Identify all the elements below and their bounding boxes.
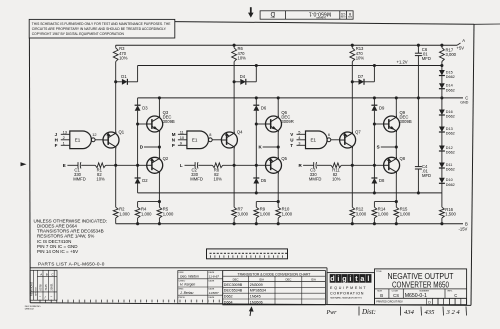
wire Q9 collector bbox=[395, 98, 397, 116]
+1.2V bus wire bbox=[138, 65, 442, 67]
svg-text:D16: D16 bbox=[446, 110, 453, 114]
NAND gate E1 (stage 1) bbox=[70, 131, 92, 149]
resistor R2 bbox=[113, 207, 118, 218]
transistor Q4 bbox=[221, 132, 237, 148]
svg-text:M650-0-1: M650-0-1 bbox=[309, 11, 331, 17]
svg-text:D2: D2 bbox=[142, 178, 148, 183]
svg-text:S: S bbox=[377, 145, 380, 150]
svg-text:TITLE: TITLE bbox=[376, 271, 382, 273]
wire Q2 emitter bbox=[158, 174, 160, 202]
svg-text:Q7: Q7 bbox=[355, 129, 361, 134]
paper edge mark top right bbox=[474, 23, 500, 25]
svg-text:THIS SCHEMATIC IS FURNISHED ON: THIS SCHEMATIC IS FURNISHED ONLY FOR TES… bbox=[32, 22, 171, 26]
svg-text:D10: D10 bbox=[446, 178, 453, 182]
diode D12 bbox=[441, 132, 443, 146]
svg-text:D14: D14 bbox=[446, 84, 453, 88]
wire Q6 emitter to Q5 collector bbox=[277, 132, 279, 157]
svg-text:+5V: +5V bbox=[457, 46, 465, 51]
svg-text:8: 8 bbox=[209, 132, 211, 137]
junction Q3 base bbox=[136, 122, 139, 125]
resistor R9 bbox=[255, 202, 257, 208]
wire Q9 base bbox=[374, 123, 384, 125]
wire Q1 emitter bbox=[115, 82, 117, 132]
svg-text:13: 13 bbox=[63, 130, 67, 135]
wire Q7 collector bbox=[351, 148, 353, 207]
wire jog R4 to Q2 emitter bbox=[138, 201, 160, 203]
diode D9 bbox=[371, 104, 377, 106]
svg-text:D662: D662 bbox=[224, 295, 233, 299]
svg-text:P: P bbox=[172, 143, 175, 148]
svg-text:g: g bbox=[342, 274, 346, 283]
digital logo bbox=[330, 274, 336, 283]
top number strip box bbox=[260, 11, 353, 19]
svg-text:MFD: MFD bbox=[422, 56, 431, 61]
wire Q6 base bbox=[256, 123, 266, 125]
junction D8 clamp bus bbox=[373, 191, 376, 194]
svg-text:MPS6534: MPS6534 bbox=[250, 289, 266, 293]
svg-text:1N645: 1N645 bbox=[250, 295, 261, 299]
ground bus wire bbox=[138, 97, 463, 99]
sheet right border bbox=[471, 24, 474, 305]
wire gate to Q1 base bbox=[95, 139, 103, 141]
svg-text:434: 434 bbox=[404, 309, 415, 316]
transistor Q2 bbox=[147, 157, 163, 173]
svg-text:A: A bbox=[462, 38, 465, 43]
resistor R12 bbox=[350, 207, 355, 218]
svg-text:D13: D13 bbox=[446, 127, 453, 131]
junction diode column gnd bbox=[440, 96, 443, 99]
svg-text:1N3606: 1N3606 bbox=[250, 300, 263, 304]
resistor R13 bbox=[351, 45, 353, 48]
svg-text:PRINTED CIRCUIT REV.: PRINTED CIRCUIT REV. bbox=[376, 301, 403, 304]
svg-text:d: d bbox=[330, 274, 334, 283]
svg-text:~: ~ bbox=[50, 295, 52, 299]
svg-text:1,000: 1,000 bbox=[378, 211, 389, 216]
wire Q3 base bbox=[138, 123, 148, 125]
svg-text:D662: D662 bbox=[446, 168, 455, 172]
svg-text:5: 5 bbox=[298, 130, 300, 135]
capacitor C6 wire bbox=[417, 45, 419, 53]
svg-text:D9: D9 bbox=[379, 105, 385, 110]
resistor R1 bbox=[95, 163, 105, 168]
svg-text:D11: D11 bbox=[446, 163, 453, 167]
svg-text:D662: D662 bbox=[446, 75, 455, 79]
svg-text:REV.: REV. bbox=[448, 291, 453, 293]
junction R13 top bbox=[351, 44, 354, 47]
svg-text:3 2 4: 3 2 4 bbox=[446, 309, 461, 316]
signature block bbox=[178, 271, 223, 304]
wire Q3 collector bbox=[158, 98, 160, 116]
svg-text:2: 2 bbox=[63, 135, 65, 140]
svg-text:D: D bbox=[428, 301, 431, 305]
+5V bus wire bbox=[116, 44, 457, 46]
transistor Q5 bbox=[266, 157, 282, 173]
diode D6 bbox=[253, 104, 259, 106]
svg-text:10%: 10% bbox=[356, 55, 365, 60]
svg-text:D662: D662 bbox=[446, 115, 455, 119]
wire D1 to +1.2V bbox=[137, 66, 139, 82]
svg-text:TRANSISTOR & DIODE CONVERSION: TRANSISTOR & DIODE CONVERSION CHART bbox=[238, 272, 311, 276]
svg-text:T: T bbox=[290, 143, 293, 148]
svg-text:3009B: 3009B bbox=[400, 119, 412, 124]
junction R16 bottom bbox=[440, 222, 443, 225]
svg-text:10%: 10% bbox=[96, 177, 105, 182]
svg-text:1,000: 1,000 bbox=[260, 211, 271, 216]
resistor R10 bbox=[277, 202, 279, 208]
diode D7 bbox=[351, 80, 354, 83]
left border zone mark bbox=[21, 162, 27, 166]
svg-text:Q4: Q4 bbox=[237, 129, 243, 134]
svg-text:CODE: CODE bbox=[340, 15, 346, 17]
svg-text:Q8: Q8 bbox=[400, 156, 406, 161]
svg-text:1,000: 1,000 bbox=[163, 211, 174, 216]
svg-text:D8: D8 bbox=[379, 178, 385, 183]
svg-text:Q5: Q5 bbox=[281, 156, 287, 161]
svg-text:B: B bbox=[46, 273, 48, 277]
-15V bus wire bbox=[116, 223, 463, 225]
svg-text:3,000: 3,000 bbox=[446, 52, 457, 57]
svg-text:DEC6534B: DEC6534B bbox=[224, 289, 243, 293]
svg-text:6: 6 bbox=[328, 132, 330, 137]
svg-text:REVISIONS: REVISIONS bbox=[30, 282, 34, 296]
svg-text:D6: D6 bbox=[261, 105, 267, 110]
diode D4 bbox=[233, 80, 236, 83]
svg-text:11-8-67: 11-8-67 bbox=[209, 274, 219, 278]
NAND gate E1 (stage 2) bbox=[187, 131, 209, 149]
svg-text:1: 1 bbox=[63, 141, 65, 146]
svg-text:1,000: 1,000 bbox=[119, 211, 130, 216]
svg-text:PROD: PROD bbox=[179, 297, 186, 299]
wire Q8 base bbox=[373, 164, 376, 167]
svg-text:D5: D5 bbox=[261, 178, 267, 183]
handwritten arrow below chart bbox=[250, 308, 251, 317]
svg-text:E1: E1 bbox=[192, 138, 198, 143]
transistor Q7 bbox=[340, 132, 356, 148]
svg-text:D4: D4 bbox=[240, 74, 246, 79]
svg-text:E Q U I P M E N T: E Q U I P M E N T bbox=[330, 286, 366, 290]
diode D1 bbox=[114, 80, 117, 83]
wire gnd to D9 bbox=[373, 96, 376, 99]
junction Q6 base bbox=[255, 122, 258, 125]
revision table bbox=[30, 270, 57, 300]
wire Q9 emitter to Q8 collector bbox=[395, 132, 397, 157]
diode D5 bbox=[255, 165, 257, 178]
transistor Q8 bbox=[384, 157, 400, 173]
wire Q3 emitter to Q2 collector bbox=[158, 132, 160, 157]
svg-text:CONVERTER M650: CONVERTER M650 bbox=[392, 280, 449, 290]
parts list box top rule bbox=[30, 267, 327, 269]
svg-text:B: B bbox=[380, 293, 383, 298]
junction C6 top bbox=[417, 44, 420, 47]
svg-text:NUMBER: NUMBER bbox=[316, 16, 326, 18]
svg-text:MAYNARD, MASSACHUSETTS: MAYNARD, MASSACHUSETTS bbox=[330, 296, 362, 299]
svg-text:1,000: 1,000 bbox=[141, 211, 152, 216]
svg-text:C: C bbox=[454, 293, 457, 298]
wire D4 to +1.2V bbox=[255, 66, 257, 82]
svg-text:E1: E1 bbox=[75, 138, 81, 143]
capacitor C6 bbox=[415, 52, 422, 54]
svg-text:D662: D662 bbox=[446, 151, 455, 155]
junction Q9 base bbox=[373, 122, 376, 125]
diode D8 bbox=[373, 165, 375, 178]
svg-text:1,000: 1,000 bbox=[400, 211, 411, 216]
transistor Q1 bbox=[103, 132, 119, 148]
diode D15 bbox=[441, 66, 443, 71]
sheet bottom border bbox=[30, 303, 471, 306]
svg-text:3,000: 3,000 bbox=[356, 211, 367, 216]
transistor Q9 bbox=[384, 116, 400, 132]
transistor Q3 bbox=[147, 116, 163, 132]
resistor R16 bbox=[441, 193, 443, 207]
svg-text:H: H bbox=[55, 137, 58, 142]
svg-text:~: ~ bbox=[39, 295, 41, 299]
diode D11 bbox=[441, 151, 443, 163]
svg-text:F: F bbox=[55, 143, 58, 148]
sheet top border bbox=[175, 22, 474, 25]
wire Q4 collector bbox=[233, 148, 235, 207]
svg-text:3009B: 3009B bbox=[163, 119, 175, 124]
wire Q4 emitter bbox=[233, 82, 235, 132]
svg-text:3009R: 3009R bbox=[281, 119, 293, 124]
junction C4 bottom bbox=[417, 191, 420, 194]
capacitor C3 bbox=[303, 164, 314, 166]
svg-text:DEC FORM NO.: DEC FORM NO. bbox=[25, 306, 42, 308]
svg-text:D3: D3 bbox=[142, 105, 148, 110]
svg-text:V: V bbox=[290, 132, 293, 137]
title block outline bbox=[327, 273, 375, 305]
capacitor C4 wire bbox=[417, 98, 419, 167]
svg-text:Geo. Walton: Geo. Walton bbox=[180, 274, 199, 278]
svg-text:PARTS LIST A-PL-M650-0-0: PARTS LIST A-PL-M650-0-0 bbox=[38, 262, 105, 267]
resistor R3 bbox=[115, 45, 117, 48]
diode D10 bbox=[441, 168, 443, 178]
wire Q5 emitter bbox=[277, 174, 279, 202]
svg-text:25051: 25051 bbox=[50, 283, 54, 291]
wire Q1 collector bbox=[115, 148, 117, 207]
parts list bottom tick marks bbox=[39, 300, 41, 303]
svg-text:L: L bbox=[180, 163, 183, 168]
svg-text:EIA: EIA bbox=[260, 277, 265, 281]
junction R17 top bbox=[440, 44, 443, 47]
svg-text:MFD: MFD bbox=[422, 173, 431, 178]
transistor Q6 bbox=[266, 116, 282, 132]
svg-text:Dist:: Dist: bbox=[361, 308, 376, 316]
diode D13 bbox=[441, 115, 443, 127]
svg-text:DEC: DEC bbox=[285, 277, 291, 281]
wire gnd to D3 bbox=[137, 98, 139, 105]
svg-text:D662: D662 bbox=[446, 132, 455, 136]
resistor R11 bbox=[331, 163, 341, 168]
svg-text:D15: D15 bbox=[446, 70, 453, 74]
transistor and diode conversion chart bbox=[223, 271, 326, 305]
wire Q6 collector bbox=[277, 98, 279, 116]
svg-text:10%: 10% bbox=[238, 55, 247, 60]
wire jog R14 to Q8 emitter bbox=[374, 201, 396, 203]
edge connector block bbox=[207, 249, 288, 259]
svg-text:435: 435 bbox=[425, 309, 436, 316]
svg-text:MMFD: MMFD bbox=[309, 177, 322, 182]
diode D16 bbox=[441, 98, 443, 110]
svg-text:DRB 102: DRB 102 bbox=[25, 309, 35, 311]
svg-text:12: 12 bbox=[92, 132, 96, 137]
svg-text:N: N bbox=[172, 137, 175, 142]
junction D5 clamp bus bbox=[255, 191, 258, 194]
svg-text:COPYRIGHT 1967 BY DIGITAL EQUI: COPYRIGHT 1967 BY DIGITAL EQUIPMENT CORP… bbox=[32, 32, 125, 36]
svg-text:U: U bbox=[290, 137, 293, 142]
svg-text:3: 3 bbox=[298, 141, 300, 146]
svg-text:6578: 6578 bbox=[38, 284, 42, 291]
svg-text:A: A bbox=[40, 273, 42, 277]
resistor R8 bbox=[212, 163, 222, 168]
down arrow marker bbox=[250, 7, 252, 13]
svg-text:l: l bbox=[367, 274, 369, 283]
svg-text:E: E bbox=[63, 163, 66, 168]
resistor R17 bbox=[441, 45, 443, 47]
capacitor C4 bbox=[415, 166, 422, 168]
svg-text:D12: D12 bbox=[446, 146, 453, 150]
svg-text:EIA: EIA bbox=[311, 277, 316, 281]
resistor R14 bbox=[373, 202, 375, 208]
svg-text:11: 11 bbox=[180, 130, 184, 135]
sheet left border bbox=[28, 38, 31, 303]
capacitor C1 bbox=[67, 164, 78, 166]
svg-text:10%: 10% bbox=[119, 55, 128, 60]
svg-text:1,500: 1,500 bbox=[445, 212, 456, 217]
wire gate to Q4 base bbox=[212, 139, 222, 141]
size code number rev row bbox=[375, 288, 467, 290]
svg-text:DATE: DATE bbox=[209, 279, 215, 282]
svg-text:7125: 7125 bbox=[44, 284, 48, 291]
svg-text:CS: CS bbox=[393, 293, 399, 298]
svg-text:M: M bbox=[172, 132, 176, 137]
svg-text:3,000: 3,000 bbox=[238, 211, 249, 216]
NAND gate E1 (stage 3) bbox=[306, 131, 328, 149]
wire Q8 emitter bbox=[395, 174, 397, 202]
svg-text:10%: 10% bbox=[214, 177, 223, 182]
svg-text:10%: 10% bbox=[332, 177, 341, 182]
svg-text:D662: D662 bbox=[446, 183, 455, 187]
svg-text:9: 9 bbox=[180, 141, 182, 146]
resistor R15 bbox=[395, 202, 397, 208]
proprietary notice box bbox=[29, 19, 175, 38]
svg-text:D1: D1 bbox=[121, 74, 127, 79]
svg-text:2N3009: 2N3009 bbox=[250, 283, 263, 287]
junction R6 top bbox=[233, 44, 236, 47]
svg-text:-15V: -15V bbox=[459, 227, 468, 232]
junction R17 +1.2V bbox=[440, 64, 443, 67]
gate input pins stage 3 bbox=[297, 133, 306, 135]
resistor R4 bbox=[137, 202, 139, 208]
svg-text:D664: D664 bbox=[224, 300, 233, 304]
gate input pins stage 2 bbox=[178, 133, 187, 135]
svg-text:J. Beriau: J. Beriau bbox=[179, 291, 193, 295]
resistor R6 bbox=[233, 45, 235, 48]
svg-text:MMFD: MMFD bbox=[73, 177, 86, 182]
wire Q7 emitter bbox=[351, 82, 353, 132]
junction C6 gnd bbox=[417, 96, 420, 99]
svg-text:E1: E1 bbox=[311, 138, 317, 143]
wire gate to Q7 base bbox=[331, 139, 340, 141]
wire gnd to D6 bbox=[255, 96, 258, 99]
svg-text:PIN 14 ON IC = +5V: PIN 14 ON IC = +5V bbox=[37, 249, 79, 254]
svg-text:DATE: DATE bbox=[209, 296, 215, 299]
resistor R7 bbox=[232, 207, 237, 218]
diode D14 bbox=[441, 76, 443, 84]
wire Q2 base bbox=[136, 164, 139, 167]
svg-text:D662: D662 bbox=[446, 88, 455, 92]
svg-text:H. Kergen: H. Kergen bbox=[180, 283, 195, 287]
capacitor C2 bbox=[185, 164, 196, 166]
svg-text:CIRCUITS ARE PROPRIETARY IN NA: CIRCUITS ARE PROPRIETARY IN NATURE AND S… bbox=[32, 27, 167, 31]
svg-text:+1.2V: +1.2V bbox=[397, 60, 408, 65]
svg-text:11/8/67: 11/8/67 bbox=[209, 291, 219, 295]
gate input pins stage 1 bbox=[61, 133, 70, 135]
negative clamp bus wire bbox=[138, 192, 442, 194]
resistor R5 bbox=[158, 202, 160, 208]
wire Q5 base bbox=[255, 164, 258, 167]
svg-text:GND: GND bbox=[460, 100, 468, 104]
wire jog R9 to Q5 emitter bbox=[256, 201, 278, 203]
svg-text:Q1: Q1 bbox=[119, 129, 125, 134]
svg-text:D7: D7 bbox=[358, 74, 364, 79]
svg-text:MMFD: MMFD bbox=[190, 177, 203, 182]
wire D7 to +1.2V bbox=[373, 66, 375, 82]
svg-text:Q2: Q2 bbox=[163, 156, 169, 161]
svg-text:DEC3009B: DEC3009B bbox=[224, 283, 243, 287]
diode D2 bbox=[137, 165, 139, 178]
svg-text:i: i bbox=[349, 274, 351, 283]
svg-text:i: i bbox=[337, 274, 339, 283]
svg-text:1,000: 1,000 bbox=[282, 211, 293, 216]
svg-text:CHG NO.: CHG NO. bbox=[35, 286, 37, 296]
svg-text:DEC: DEC bbox=[233, 277, 239, 281]
svg-text:Pwr: Pwr bbox=[326, 310, 338, 316]
svg-text:M650-0-1: M650-0-1 bbox=[405, 293, 427, 299]
svg-text:REV: REV bbox=[270, 15, 275, 17]
svg-text:CORPORATION: CORPORATION bbox=[330, 292, 364, 296]
diode D3 bbox=[135, 104, 141, 106]
